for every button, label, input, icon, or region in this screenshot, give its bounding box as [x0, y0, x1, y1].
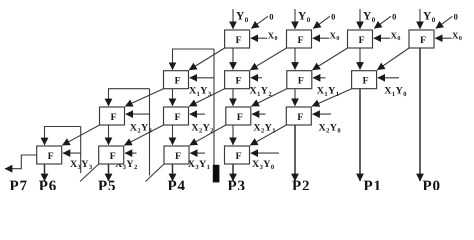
node 0 input wire to F14: [436, 16, 453, 28]
wire sum F11 to F22: [232, 48, 234, 70]
node output P6 label: [39, 179, 57, 195]
wire sum F23 to F34: [294, 89, 296, 106]
node Y0 input wire to F13: [359, 9, 361, 29]
wire partial product X3Y1 input to F43: [190, 152, 205, 154]
svg-text:0: 0: [454, 11, 459, 21]
node Y0 label (F13): [363, 11, 376, 24]
svg-text:P4: P4: [168, 179, 186, 191]
wire carry F22 to F32: [189, 89, 224, 107]
wire sum F34 to output P2: [294, 125, 296, 181]
wire carry F21 to F31: [125, 89, 163, 107]
wire partial product X1Y2 input to F22: [251, 77, 262, 79]
svg-text:0: 0: [269, 11, 274, 21]
svg-text:F: F: [420, 35, 426, 46]
wire carry F24 to F34: [312, 89, 352, 107]
full adder F33: [226, 107, 251, 125]
wire sum F22 to F33: [232, 89, 234, 106]
wire sum F12 to F23: [294, 48, 296, 70]
svg-text:F: F: [110, 151, 116, 162]
svg-text:P1: P1: [364, 179, 382, 191]
wire partial product X3Y2 input to F42: [125, 152, 137, 154]
node X0 input wire to F14: [435, 37, 451, 39]
full adder F11: [225, 30, 250, 48]
node X3Y2 label: [115, 159, 138, 171]
wire carry F11 to F21: [189, 48, 224, 70]
svg-text:F: F: [174, 112, 180, 123]
full adder F12: [287, 30, 312, 48]
full adder F31: [100, 107, 125, 125]
node 0 label (F13): [392, 11, 397, 21]
full adder F14: [409, 30, 434, 48]
wire partial product X2Y3 input to F31: [126, 113, 150, 115]
node 0 input wire to F12: [313, 16, 330, 28]
wire carry F31 to F41: [62, 125, 99, 145]
wire sum F24 to output P1: [359, 89, 361, 181]
junction thick bar at bottom of V3: [213, 165, 220, 183]
node 0 input wire to F13: [374, 16, 391, 28]
node Y0 input wire to F11: [232, 9, 234, 29]
wire carry F12 to F22: [250, 48, 286, 70]
node Y0 label (F12): [298, 11, 311, 24]
full adder F41: [37, 146, 62, 164]
wire sum F14 to output P0: [419, 48, 421, 181]
wire partial product X1Y0 input to F24: [378, 77, 399, 79]
wire carry return over F31 (vertical bus V2): [109, 89, 150, 176]
node X2Y1 label: [253, 122, 276, 134]
node X1Y0 label: [384, 86, 407, 98]
wire sum F21 to F32: [172, 89, 174, 106]
node X2Y3 label: [130, 122, 153, 134]
wire carry F33 to F43: [190, 125, 226, 145]
node X3Y1 label: [188, 159, 211, 171]
node X0 input wire to F12: [313, 37, 329, 39]
wire carry F13 to F23: [313, 48, 348, 70]
node X1Y1 label: [317, 86, 340, 98]
wire carry F34 to F44: [250, 125, 286, 145]
node output P4 label: [168, 179, 186, 195]
full adder F23: [287, 71, 312, 89]
wire sum F41 to output P6: [44, 164, 46, 181]
node X2Y0 label: [319, 122, 342, 134]
svg-text:F: F: [174, 76, 180, 87]
svg-text:F: F: [297, 35, 303, 46]
svg-text:P0: P0: [423, 179, 441, 191]
node X3Y0 label: [252, 159, 275, 171]
node X0 label (F13): [391, 30, 401, 42]
node X0 label (F12): [330, 30, 340, 42]
node 0 input wire to F11: [251, 16, 268, 28]
svg-text:F: F: [298, 76, 304, 87]
wire sum F32 to F43: [172, 125, 174, 145]
svg-text:F: F: [236, 76, 242, 87]
node output P5 label: [98, 179, 116, 195]
svg-text:P2: P2: [292, 179, 310, 191]
svg-text:P7: P7: [10, 179, 28, 191]
wire carry return over F21 (vertical bus V3): [173, 49, 215, 166]
node X2Y2 label: [191, 122, 214, 134]
node 0 label (F11): [269, 11, 274, 21]
node output P7 label: [10, 179, 28, 195]
node output P0 label: [423, 179, 441, 195]
wire carry out F41 to P7: [5, 155, 37, 169]
svg-text:0: 0: [392, 11, 397, 21]
svg-text:0: 0: [331, 11, 336, 21]
node 0 label (F12): [331, 11, 336, 21]
full adder F44: [225, 146, 250, 164]
wire sum F42 to output P5: [108, 164, 110, 181]
wire carry F14 to F24: [377, 48, 409, 70]
node X0 label (F11): [268, 30, 278, 42]
svg-text:F: F: [48, 151, 54, 162]
wire carry F32 to F42: [124, 125, 163, 145]
wire partial product X1Y1 input to F23: [313, 77, 326, 79]
wire partial product X2Y1 input to F33: [252, 113, 266, 115]
svg-text:F: F: [363, 76, 369, 87]
node X1Y2 label: [250, 86, 273, 98]
svg-text:F: F: [358, 35, 364, 46]
wire sum F33 to F44: [232, 125, 234, 145]
full adder F32: [164, 107, 189, 125]
wire carry hook F42 to V1: [80, 164, 99, 182]
node X0 input wire to F11: [251, 37, 267, 39]
full adder F43: [164, 146, 189, 164]
wire partial product X1Y3 input to F21: [190, 77, 214, 79]
node Y0 input wire to F14: [419, 9, 421, 29]
wire carry F23 to F33: [252, 89, 287, 107]
node output P3 label: [228, 179, 246, 195]
svg-text:P3: P3: [228, 179, 246, 191]
svg-text:F: F: [110, 112, 116, 123]
full adder F13: [348, 30, 373, 48]
wire sum F31 to F42: [108, 125, 110, 145]
wire sum F43 to output P4: [172, 164, 174, 181]
svg-text:F: F: [235, 151, 241, 162]
wire sum F44 to output P3: [232, 164, 234, 181]
node Y0 label (F14): [423, 11, 436, 24]
wire partial product X2Y2 input to F32: [190, 113, 205, 115]
node X1Y3 label: [189, 86, 212, 98]
wire carry return over F41 (vertical bus V1): [45, 127, 81, 174]
node output P2 label: [292, 179, 310, 195]
svg-text:P5: P5: [98, 179, 116, 191]
node Y0 input wire to F12: [294, 9, 296, 29]
wire partial product X3Y3 input to F41: [63, 152, 81, 154]
node Y0 label (F11): [236, 11, 249, 24]
full adder F34: [286, 107, 311, 125]
node X3Y3 label: [70, 159, 93, 171]
wire carry hook F43 to V2: [146, 164, 165, 182]
svg-text:F: F: [237, 112, 243, 123]
wire sum F13 to F24: [359, 48, 361, 70]
full adder F42: [99, 146, 124, 164]
node X0 input wire to F13: [374, 37, 390, 39]
full adder F21: [164, 71, 189, 89]
node X0 label (F14): [452, 30, 462, 42]
svg-text:F: F: [175, 151, 181, 162]
svg-text:F: F: [236, 35, 242, 46]
full adder F24: [352, 71, 377, 89]
node 0 label (F14): [454, 11, 459, 21]
wire partial product X3Y0 input to F44: [251, 152, 279, 154]
full adder F22: [225, 71, 250, 89]
svg-text:P6: P6: [39, 179, 57, 191]
node output P1 label: [364, 179, 382, 195]
svg-text:F: F: [297, 112, 303, 123]
wire partial product X2Y0 input to F34: [313, 113, 332, 115]
